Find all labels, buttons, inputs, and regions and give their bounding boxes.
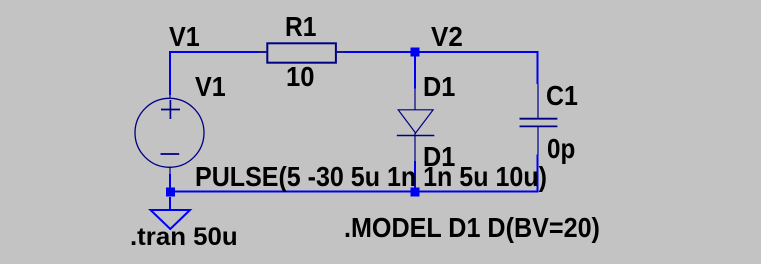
spice directive .MODEL D1 D(BV=20)	[344, 214, 600, 242]
source value PULSE(5 -30 5u 1n 1n 5u 10u)	[195, 163, 547, 191]
node label V2	[431, 23, 463, 51]
wire: vertical from diode D1 bottom lead to bottom junction	[414, 161, 416, 191]
resistor designator R1	[285, 13, 316, 41]
capacitor value 0p	[547, 135, 575, 163]
resistor value 10	[286, 63, 314, 91]
wire: vertical from node V2 junction down to diode D1 top lead	[414, 53, 416, 89]
source designator V1	[195, 73, 226, 101]
node label V1	[169, 23, 200, 51]
wire: bottom horizontal from V1 junction to bottom-right corner	[170, 191, 539, 193]
voltage source V1 (circle with plus and minus)	[135, 95, 204, 174]
wire: vertical from bottom-left junction down to ground symbol	[169, 197, 171, 210]
junction: bottom of source V1 at ground	[166, 188, 175, 197]
capacitor C1	[520, 84, 558, 155]
wire: top horizontal from corner to resistor R1 left lead	[169, 51, 258, 53]
diode designator D1	[423, 73, 455, 101]
capacitor designator C1	[546, 82, 578, 110]
resistor R1 (box)	[258, 43, 346, 62]
diode model label D1	[423, 143, 455, 171]
wire: top-left vertical from corner to V1 source top	[169, 51, 171, 95]
ground symbol	[151, 210, 191, 229]
wire: right vertical from top-right corner to capacitor C1 top lead	[537, 51, 539, 84]
junction: node V2 at top of diode branch	[411, 48, 420, 57]
wire: vertical from V1 source bottom to bottom-left junction	[169, 174, 171, 188]
junction: bottom of diode branch	[411, 188, 420, 197]
diode D1	[397, 89, 435, 162]
wire: top horizontal from resistor R1 right lead to top-right corner	[345, 51, 539, 53]
wire: right vertical from capacitor C1 bottom lead to bottom-right corner	[537, 155, 539, 193]
spice directive .tran 50u	[130, 225, 238, 250]
